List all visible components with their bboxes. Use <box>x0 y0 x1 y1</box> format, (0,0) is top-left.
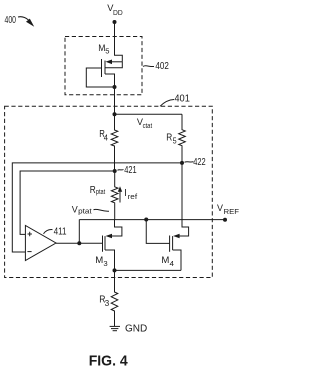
resistor R3 <box>111 270 118 326</box>
label VREF <box>217 203 240 216</box>
leader arrow for 400 <box>18 17 34 27</box>
svg-text:GND: GND <box>125 324 147 335</box>
label 411 <box>54 226 67 237</box>
wire M4 gate drop <box>146 220 169 244</box>
resistor Rptat <box>111 171 118 220</box>
wire op-amp output to M3 gate <box>56 242 103 244</box>
label M5 <box>98 43 109 56</box>
svg-text:ref: ref <box>128 194 138 201</box>
leader for 411 <box>44 230 53 234</box>
svg-text:5: 5 <box>173 136 177 145</box>
wire M3/M4 common source <box>115 269 182 271</box>
svg-text:V: V <box>217 203 223 213</box>
junction dot M5 drain/gate <box>113 85 117 89</box>
transistor M4 <box>170 163 189 271</box>
label 402 <box>155 61 169 72</box>
wire gate line to VREF <box>79 219 225 221</box>
node 422 <box>180 161 184 165</box>
svg-text:R: R <box>166 133 172 144</box>
label VDD <box>107 3 123 17</box>
label Vptat <box>72 205 92 216</box>
svg-text:ctat: ctat <box>143 123 153 130</box>
svg-text:ptat: ptat <box>78 208 92 215</box>
svg-text:FIG. 4: FIG. 4 <box>89 352 129 369</box>
leader for 402 <box>143 65 154 68</box>
wire node 422 feedback to op-amp minus input <box>12 163 182 252</box>
svg-text:422: 422 <box>193 157 206 168</box>
label Vctat <box>137 117 152 130</box>
svg-text:5: 5 <box>105 47 109 56</box>
dashed box 402 <box>65 37 142 95</box>
svg-text:402: 402 <box>155 61 169 72</box>
ground <box>110 326 120 330</box>
svg-text:400: 400 <box>5 15 17 26</box>
resistor R5 <box>179 114 186 163</box>
svg-text:REF: REF <box>224 207 240 216</box>
transistor M5 <box>86 59 122 87</box>
wire riser output to gate line <box>78 220 80 244</box>
leader for 401 <box>160 100 174 107</box>
svg-text:411: 411 <box>54 226 67 237</box>
wire M5 drain down to Vctat node <box>114 87 116 114</box>
svg-text:4: 4 <box>170 259 175 268</box>
node 421 <box>113 169 117 173</box>
dashed box 401 <box>5 106 213 277</box>
junction dot M4 gate tap <box>144 218 148 222</box>
label 401 <box>174 93 190 104</box>
label Rptat <box>90 185 105 196</box>
label R3 <box>99 293 110 308</box>
junction dot common source <box>113 268 117 272</box>
leader for 422 <box>185 161 194 164</box>
svg-text:3: 3 <box>103 259 107 268</box>
junction dot output <box>77 241 81 245</box>
svg-text:DD: DD <box>113 10 123 17</box>
svg-text:M: M <box>161 255 169 266</box>
label R5 <box>166 133 177 146</box>
label GND <box>125 324 147 335</box>
leader for 421 <box>118 169 124 172</box>
node Vctat <box>113 112 117 116</box>
label M4 <box>161 255 174 268</box>
supply VDD terminal <box>113 20 117 24</box>
svg-text:421: 421 <box>124 165 137 176</box>
caption FIG. 4 <box>89 352 129 369</box>
label Iref <box>124 188 137 201</box>
label 421 <box>124 165 137 176</box>
current arrow Iref <box>118 186 122 202</box>
wire node 421 feedback to op-amp plus input <box>20 171 115 234</box>
svg-text:I: I <box>124 188 127 199</box>
terminal VREF <box>223 218 227 222</box>
label M3 <box>95 255 107 268</box>
svg-text:ptat: ptat <box>96 189 105 196</box>
leader for Vptat <box>94 209 110 211</box>
svg-text:3: 3 <box>105 299 110 308</box>
wire Vctat node to R5 top <box>115 113 183 115</box>
svg-text:R: R <box>90 185 96 196</box>
label 422 <box>193 157 206 168</box>
svg-text:V: V <box>72 205 78 215</box>
op-amp U411 <box>25 226 56 261</box>
svg-text:4: 4 <box>104 134 109 143</box>
label 400 <box>5 15 17 26</box>
label R4 <box>99 129 108 142</box>
svg-text:M: M <box>95 255 103 266</box>
wire VDD down to M5 source hook <box>115 22 123 62</box>
transistor M3 <box>103 220 122 271</box>
svg-text:401: 401 <box>174 93 190 104</box>
resistor R4 <box>111 114 118 171</box>
